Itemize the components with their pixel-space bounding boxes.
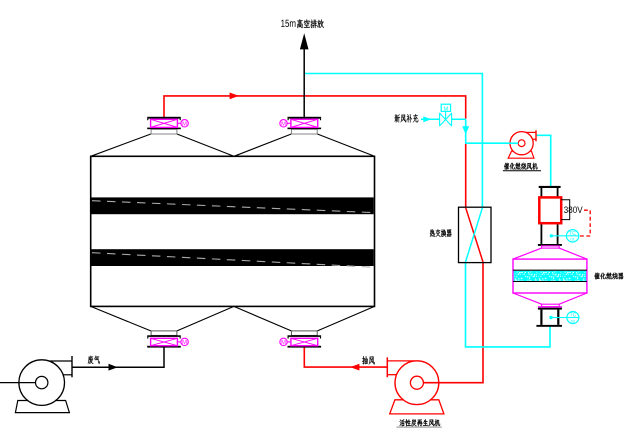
label: 催化燃烧风机 (catalytic combustion fan), underlined — [504, 163, 537, 170]
svg-text:M: M — [281, 340, 286, 346]
label: 15m高空排放 (discharge) — [281, 20, 295, 27]
label: 催化燃烧器 (catalytic burner) — [594, 273, 623, 280]
motorized valve V1 (adsorber top left) with motor M — [147, 117, 188, 134]
temperature controller TC-2 — [549, 312, 579, 324]
fresh air motorized valve (新风补充) — [440, 104, 452, 126]
wire: cyan pipe catalytic fan outlet to heater — [537, 135, 551, 187]
bottom hopper right cone — [234, 306, 375, 331]
svg-text:M: M — [182, 121, 187, 127]
electric heater (380V) — [539, 186, 570, 244]
wire: red pipe heat exchanger to regeneration fan — [423, 262, 483, 382]
wire: waste gas line from blower to bottom-left valve — [72, 347, 164, 367]
flow arrow on fresh-air line (rightward) — [423, 116, 431, 122]
flow arrow on waste gas line (rightward) — [109, 364, 118, 371]
wire: red dashed control line 380V to TC — [579, 210, 590, 236]
wire: cyan drop from fresh-air junction to fan inlet line — [466, 119, 519, 143]
activated carbon regeneration fan — [387, 357, 444, 414]
exhaust stack arrowhead (upward) — [300, 33, 309, 49]
heat exchanger (cross-flow) — [459, 207, 492, 262]
svg-text:01: 01 — [570, 237, 575, 242]
svg-text:380V: 380V — [564, 205, 583, 215]
flow arrow on suction pipe (leftward) — [350, 364, 359, 371]
wire: red desorption pipe (top-left valve to heat exchanger) — [164, 96, 466, 119]
label: 活性炭再生风机 (regeneration fan), underlined — [400, 419, 440, 426]
motorized valve V4 (adsorber bottom right) with motor M — [280, 331, 321, 348]
wire: cyan branch from stack to heat exchanger — [304, 74, 482, 208]
temperature controller TC-1 — [550, 230, 579, 242]
wire: red pipe mid segment to heat exchanger — [465, 144, 467, 208]
motorized valve V2 (adsorber top right) with motor M — [280, 117, 321, 134]
catalytic combustion fan (blower) — [508, 130, 536, 158]
label: 废气 (waste gas) — [88, 356, 100, 364]
waste gas blower — [0, 356, 72, 413]
label: 新风补充 (fresh air) — [395, 114, 419, 123]
motorized valve V3 (adsorber bottom left) with motor M — [147, 331, 188, 348]
label: 热交换器 (heat exchanger) — [430, 229, 452, 237]
bottom hopper left cone — [91, 306, 234, 331]
wire: red suction pipe (bottom-right valve to regeneration fan) — [304, 346, 387, 367]
top hopper right cone — [234, 134, 375, 156]
carbon bed 1 (black band) — [92, 197, 374, 214]
wire: cyan fresh-air line through valve — [421, 118, 466, 120]
catalytic burner vessel — [513, 248, 587, 308]
svg-text:M: M — [182, 340, 187, 346]
label: 抽风 (suction) — [362, 356, 374, 364]
burner outlet duct box — [536, 308, 562, 327]
svg-text:M: M — [281, 121, 286, 127]
heater bottom plate — [538, 244, 562, 248]
exhaust stack line — [303, 48, 305, 117]
top hopper left cone — [91, 134, 234, 156]
wire: cyan pipe heat exchanger to catalytic burner bottom — [466, 262, 551, 347]
svg-text:02: 02 — [571, 318, 576, 323]
adsorber vessel shell — [91, 156, 375, 306]
flow arrow on red pipe (rightward) — [230, 93, 239, 100]
flow arrow on cyan drop (downward) — [462, 126, 469, 134]
carbon bed 1 dashed level line — [92, 201, 373, 213]
carbon bed 2 dashed level line — [92, 253, 373, 268]
carbon bed 2 (black band) — [92, 249, 374, 266]
